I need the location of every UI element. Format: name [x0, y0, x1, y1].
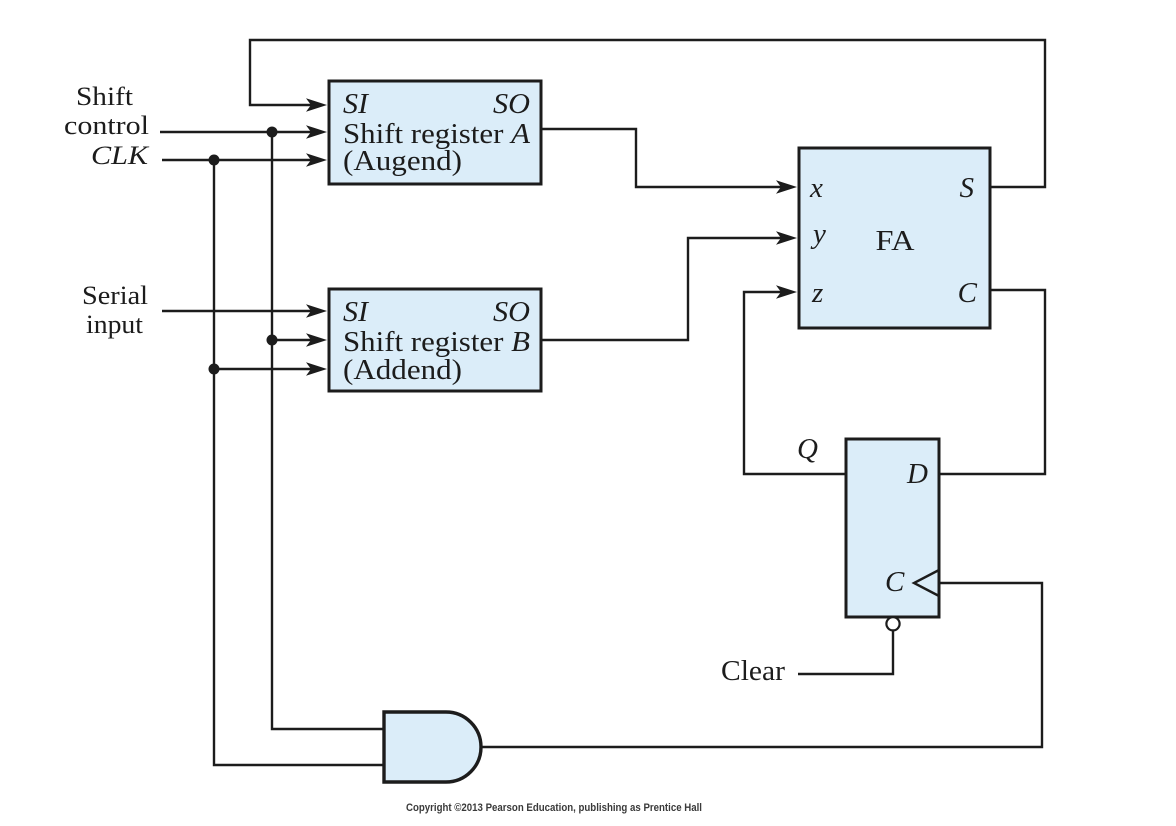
- svg-text:Shift register B: Shift register B: [343, 327, 530, 358]
- svg-text:Q: Q: [797, 433, 818, 465]
- svg-text:control: control: [64, 111, 149, 140]
- svg-text:(Addend): (Addend): [343, 355, 462, 386]
- wire: Serial input to register B: [162, 310, 313, 312]
- svg-text:Clear: Clear: [721, 656, 786, 687]
- junction dot: Shift control branch: [267, 127, 278, 138]
- svg-text:CLK: CLK: [91, 141, 150, 170]
- wire: CLK branch into register B: [214, 368, 313, 370]
- svg-text:input: input: [86, 310, 144, 339]
- arrowhead into FA x input: [776, 180, 797, 194]
- arrowhead into FA z input: [776, 285, 797, 299]
- arrowhead into CLK input of register B: [306, 362, 327, 376]
- arrowhead into SI of register A: [306, 98, 327, 112]
- svg-text:y: y: [810, 218, 826, 250]
- wire: CLK to register A: [162, 159, 313, 161]
- svg-text:S: S: [960, 172, 975, 204]
- shift register A box: [329, 81, 541, 184]
- svg-text:D: D: [906, 458, 928, 490]
- AND gate G1: [384, 712, 481, 782]
- arrowhead into CLK input of register A: [306, 153, 327, 167]
- arrowhead into SI of register B: [306, 304, 327, 318]
- svg-text:C: C: [958, 277, 978, 309]
- full adder FA box: [799, 148, 990, 328]
- arrowhead into FA y input: [776, 231, 797, 245]
- wire: Q of flip-flop to FA z input: [744, 292, 846, 474]
- svg-text:SI: SI: [343, 297, 370, 328]
- flip-flop clock edge triangle: [914, 570, 939, 596]
- svg-text:C: C: [885, 566, 905, 598]
- wire: FA S output feedback loop to SI of register A: [250, 40, 1045, 187]
- svg-text:x: x: [809, 172, 823, 204]
- svg-text:Shift: Shift: [76, 82, 134, 111]
- wire: AND gate output to flip-flop clock input: [481, 583, 1042, 747]
- arrowhead into shift-control input of register A: [306, 125, 327, 139]
- junction dot: CLK at register B: [209, 364, 220, 375]
- svg-text:FA: FA: [876, 226, 916, 257]
- wire: Shift control vertical branch down to AND gate: [272, 132, 384, 729]
- svg-text:SO: SO: [493, 297, 530, 328]
- junction dot: CLK branch: [209, 155, 220, 166]
- shift register B box: [329, 289, 541, 391]
- svg-text:z: z: [811, 277, 823, 309]
- arrowhead into shift-control input of register B: [306, 333, 327, 347]
- svg-text:Copyright ©2013 Pearson Educat: Copyright ©2013 Pearson Education, publi…: [406, 802, 702, 814]
- junction dot: Shift control at register B: [267, 335, 278, 346]
- wire: CLK vertical branch down to AND gate: [214, 160, 384, 765]
- svg-text:Serial: Serial: [82, 281, 148, 310]
- D flip-flop box: [846, 439, 939, 617]
- svg-text:SO: SO: [493, 89, 530, 120]
- wire: Clear to flip-flop bubble: [798, 630, 893, 674]
- wire: SO of register A to FA x input: [541, 129, 783, 187]
- wire: Shift control branch into register B: [272, 339, 313, 341]
- wire: Shift control to register A: [160, 131, 313, 133]
- wire: FA C output to D input of flip-flop: [939, 290, 1045, 474]
- svg-text:SI: SI: [343, 89, 370, 120]
- wire: SO of register B to FA y input: [541, 238, 783, 340]
- flip-flop clear bubble: [886, 617, 899, 630]
- svg-text:(Augend): (Augend): [343, 146, 462, 177]
